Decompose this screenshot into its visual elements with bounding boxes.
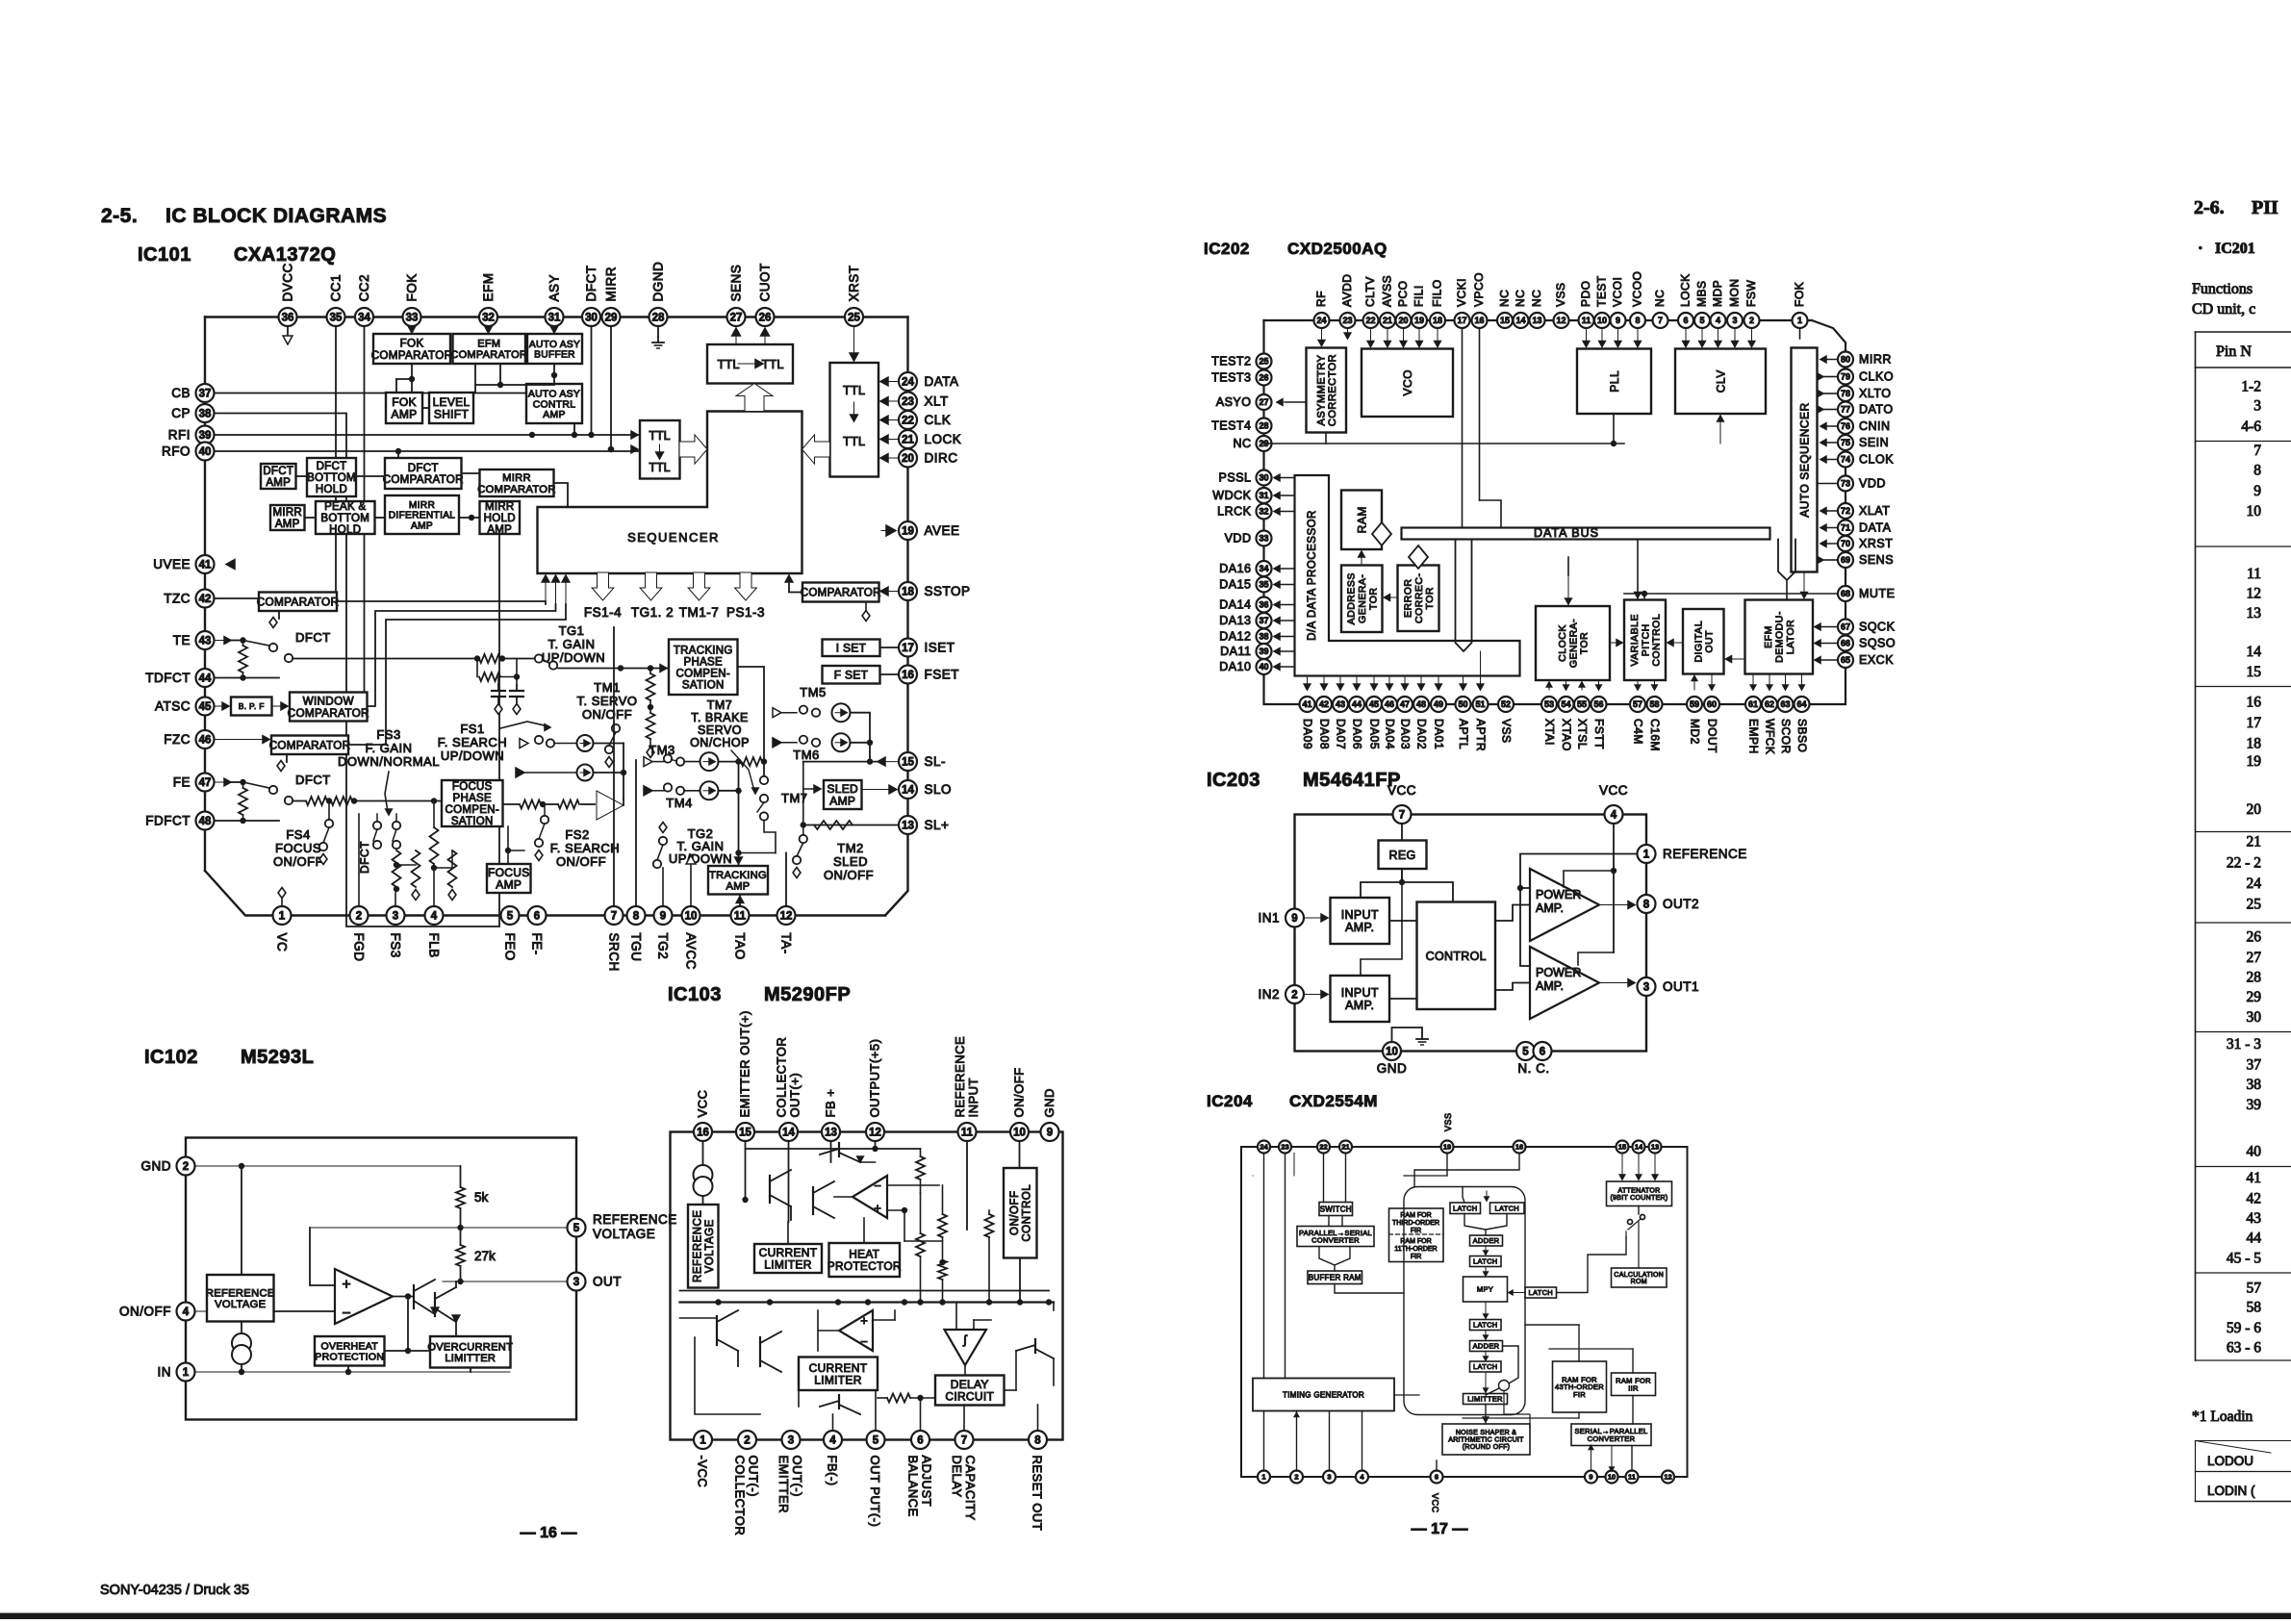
pin 48 <box>196 812 215 830</box>
wire reference voltage down <box>241 1166 242 1275</box>
svg-text:GENERA-: GENERA- <box>1567 619 1579 668</box>
svg-text:44: 44 <box>1352 699 1362 709</box>
block FOK COMPARATOR <box>373 334 450 364</box>
wire TE line to TG1 <box>293 658 477 660</box>
pin 5 <box>1694 313 1710 328</box>
svg-text:CLK: CLK <box>925 413 952 427</box>
svg-text:12: 12 <box>2247 586 2262 602</box>
pin 59 <box>1687 697 1702 712</box>
block F SET <box>823 666 880 684</box>
svg-text:DIFERENTIAL: DIFERENTIAL <box>389 511 456 521</box>
wire pin4 vcc down <box>1613 824 1615 952</box>
wire TM7 pointer <box>731 750 754 791</box>
table loading small <box>2196 1440 2291 1442</box>
svg-text:38: 38 <box>2247 1077 2262 1093</box>
wire TAO pin11 to tracking amp <box>739 895 741 906</box>
block MIRR HOLD AMP <box>480 501 521 534</box>
wire MUTE rail <box>1624 593 1838 595</box>
svg-text:65: 65 <box>1841 655 1850 665</box>
pin 24 <box>1258 1141 1270 1154</box>
svg-text:TTL: TTL <box>843 383 865 397</box>
wire asymmetry corrector stub <box>1321 328 1323 346</box>
svg-text:LATCH: LATCH <box>1473 1257 1498 1266</box>
svg-text:FB +: FB + <box>824 1089 838 1118</box>
svg-text:LATCH: LATCH <box>1494 1204 1519 1212</box>
pin 38 <box>1257 629 1272 645</box>
wire opamp upper feed <box>834 1196 853 1198</box>
block SLED AMP <box>824 780 862 809</box>
pin 23 <box>1279 1141 1291 1154</box>
wire IC101 right frame <box>885 317 908 916</box>
svg-text:2: 2 <box>744 1435 750 1447</box>
svg-text:14: 14 <box>1515 316 1525 325</box>
wire TZC pin42 to comparator <box>215 597 260 599</box>
block TTL down-converter small <box>640 420 680 479</box>
svg-text:TTL: TTL <box>717 357 739 371</box>
svg-text:LRCK: LRCK <box>1217 505 1252 519</box>
svg-text:VSS: VSS <box>1443 1112 1453 1131</box>
svg-text:T. GAIN: T. GAIN <box>547 637 595 651</box>
svg-text:22 - 2: 22 - 2 <box>2227 855 2261 872</box>
svg-text:44: 44 <box>2247 1230 2262 1246</box>
svg-text:11: 11 <box>2247 566 2261 582</box>
pin 2 <box>177 1157 195 1176</box>
svg-text:CLTV: CLTV <box>1363 276 1377 307</box>
wire overheat to overcurrent <box>385 1350 431 1352</box>
svg-text:VCC: VCC <box>1387 783 1416 798</box>
wire FSET link <box>880 673 900 675</box>
pin 12 <box>1554 313 1569 328</box>
wire SLED AMP out <box>862 789 898 791</box>
svg-text:15: 15 <box>739 1128 751 1139</box>
pin 42 <box>1316 697 1332 712</box>
svg-text:TEST3: TEST3 <box>1211 371 1251 385</box>
wire pitch control top <box>1637 540 1639 598</box>
block MIRR DIFFERENTIAL AMP <box>385 495 459 534</box>
pin 62 <box>1762 697 1777 712</box>
block ADDRESS GENERATOR <box>1341 566 1383 633</box>
svg-text:41: 41 <box>2247 1170 2262 1186</box>
block PLL <box>1577 349 1651 415</box>
svg-text:CONTRL: CONTRL <box>533 399 576 410</box>
pin 52 <box>1498 697 1514 712</box>
wire AVEE arrow <box>886 525 896 536</box>
block TRACKING AMP <box>708 866 768 895</box>
svg-text:25: 25 <box>1259 357 1268 367</box>
current source IC102 <box>232 1333 251 1353</box>
svg-text:2-5.: 2-5. <box>101 205 138 227</box>
svg-text:AMP: AMP <box>392 408 418 421</box>
wire MPY to latch E <box>1485 1302 1487 1318</box>
svg-text:AVSS: AVSS <box>1381 275 1394 307</box>
wire ON/OFF control down <box>1019 1258 1021 1303</box>
pin 65 <box>1838 652 1853 668</box>
svg-text:AMP.: AMP. <box>1345 921 1374 934</box>
svg-text:6: 6 <box>1435 1473 1438 1482</box>
svg-text:60: 60 <box>1707 699 1717 709</box>
block SEQUENCER <box>538 412 802 574</box>
pin 34 <box>355 308 373 326</box>
svg-text:SONY-04235 / Druck 35: SONY-04235 / Druck 35 <box>100 1583 249 1598</box>
svg-text:IC203: IC203 <box>1207 770 1260 791</box>
wire limitter down <box>1485 1405 1487 1425</box>
svg-text:SWITCH: SWITCH <box>1320 1205 1352 1213</box>
svg-text:COMPARATOR: COMPARATOR <box>269 739 351 751</box>
wire IN bus <box>195 1371 511 1373</box>
svg-text:NOISE SHAPER &: NOISE SHAPER & <box>1456 1430 1516 1436</box>
svg-text:9: 9 <box>1047 1128 1053 1139</box>
svg-text:14: 14 <box>902 785 914 797</box>
svg-text:TGU: TGU <box>629 933 644 962</box>
svg-text:VPCO: VPCO <box>1472 272 1486 307</box>
pin 35 <box>327 308 345 326</box>
svg-text:54: 54 <box>1561 699 1570 709</box>
svg-text:VSS: VSS <box>1554 282 1567 307</box>
svg-text:17: 17 <box>2247 715 2262 731</box>
pin 2 <box>1286 985 1304 1003</box>
svg-text:M5290FP: M5290FP <box>764 984 851 1005</box>
svg-text:DFCT: DFCT <box>358 841 371 874</box>
svg-text:LATCH: LATCH <box>1473 1362 1498 1371</box>
pin 7 <box>955 1431 974 1449</box>
svg-text:DA13: DA13 <box>1219 614 1251 627</box>
svg-text:LODIN (: LODIN ( <box>2207 1484 2255 1498</box>
svg-text:20: 20 <box>902 453 914 465</box>
svg-text:TIMING GENERATOR: TIMING GENERATOR <box>1283 1390 1364 1399</box>
svg-text:ADDER: ADDER <box>1473 1342 1500 1351</box>
block EFM DEMODULATOR <box>1745 600 1814 674</box>
svg-text:POWER: POWER <box>1536 966 1581 979</box>
svg-text:EMITTER OUT(+): EMITTER OUT(+) <box>738 1010 752 1117</box>
pin 21 <box>1380 313 1395 328</box>
svg-text:21: 21 <box>902 435 914 446</box>
pin 33 <box>403 308 421 326</box>
block SERIAL-PARALLEL CONVERTER <box>1571 1424 1651 1446</box>
svg-text:WDCK: WDCK <box>1212 489 1251 502</box>
svg-text:DA06: DA06 <box>1351 719 1364 749</box>
pin 6 <box>911 1431 929 1449</box>
svg-text:27: 27 <box>730 313 743 324</box>
svg-text:ON/OFF: ON/OFF <box>556 854 606 869</box>
wire resistor col2 IC103 <box>942 1185 944 1214</box>
svg-text:PROTECTOR: PROTECTOR <box>827 1259 902 1273</box>
ground DGND pin 28 <box>657 326 659 337</box>
wire FE line resistors <box>293 800 306 802</box>
wire OUT line <box>443 1281 568 1282</box>
svg-text:27k: 27k <box>474 1249 496 1263</box>
wire clock gen to pitch link <box>1610 642 1622 644</box>
wire IC202 top-right corner <box>1812 320 1846 350</box>
pin 1 <box>694 1431 712 1449</box>
pin 14 <box>1633 1141 1645 1154</box>
wire FOK AMP level shift link <box>422 407 429 409</box>
pin 37 <box>1257 613 1272 628</box>
pin 13 <box>899 816 917 834</box>
svg-text:DA08: DA08 <box>1318 719 1332 749</box>
pin 8 <box>1029 1431 1047 1449</box>
svg-text:18: 18 <box>2247 735 2262 751</box>
svg-text:HOLD: HOLD <box>329 524 361 536</box>
wire REG stub <box>1401 824 1403 841</box>
wire VCKI long vertical <box>1462 328 1464 528</box>
svg-text:DIGITAL: DIGITAL <box>1693 621 1704 663</box>
svg-text:14: 14 <box>782 1128 795 1139</box>
svg-text:6: 6 <box>1540 1047 1545 1058</box>
wire TTL right box out arrow <box>802 435 830 464</box>
pin 24 <box>899 372 917 391</box>
svg-text:24: 24 <box>902 377 914 389</box>
svg-text:16: 16 <box>697 1128 709 1139</box>
pin 10 <box>682 906 700 925</box>
wire IN1 arrow <box>1304 917 1328 919</box>
svg-text:VOLTAGE: VOLTAGE <box>704 1219 716 1273</box>
wire PLL stubs <box>1586 328 1588 347</box>
svg-text:37: 37 <box>1259 616 1268 625</box>
block WINDOW COMPARATOR <box>290 693 368 722</box>
svg-text:47: 47 <box>199 777 212 789</box>
svg-text:RAM: RAM <box>1355 506 1368 533</box>
pin 6 <box>1534 1042 1552 1060</box>
svg-text:MUTE: MUTE <box>1859 587 1895 600</box>
svg-text:TM1-7: TM1-7 <box>679 605 720 620</box>
wire reg rail <box>1361 882 1453 902</box>
svg-text:40: 40 <box>2247 1143 2262 1159</box>
wire opamp out <box>393 1296 414 1298</box>
svg-text:10: 10 <box>1608 1473 1616 1482</box>
pin 20 <box>1396 313 1412 328</box>
svg-text:EMITTER: EMITTER <box>776 1456 791 1514</box>
wire IC202 top bus <box>1264 319 1813 321</box>
svg-text:DFCT: DFCT <box>263 466 293 477</box>
svg-text:26: 26 <box>1259 373 1268 383</box>
op-amp lower IC103 <box>839 1310 873 1351</box>
pin 30 <box>582 308 600 326</box>
svg-text:13: 13 <box>825 1128 837 1139</box>
pin 25 <box>845 308 863 326</box>
svg-text:TG1. 2: TG1. 2 <box>631 605 674 620</box>
svg-text:ON/OFF: ON/OFF <box>824 868 874 882</box>
svg-text:PDO: PDO <box>1579 280 1592 307</box>
block HEAT PROTECTOR <box>829 1243 901 1277</box>
switch TM7 <box>760 776 768 784</box>
svg-text:DFCT: DFCT <box>408 463 439 474</box>
svg-text:57: 57 <box>1633 699 1642 709</box>
svg-text:DA02: DA02 <box>1415 719 1429 749</box>
svg-text:SERVO: SERVO <box>698 723 742 737</box>
svg-text:D/A DATA PROCESSOR: D/A DATA PROCESSOR <box>1307 510 1318 641</box>
wire FS1 row1 <box>520 739 528 749</box>
svg-text:59: 59 <box>1690 699 1699 709</box>
wire comparator FZC diamond <box>286 754 288 762</box>
wire delay capacity pin7 up <box>963 1406 965 1432</box>
svg-text:AUTO SEQUENCER: AUTO SEQUENCER <box>1797 402 1811 517</box>
wire clock gen arrow from bus <box>1567 575 1569 604</box>
pin 28 <box>1257 419 1272 434</box>
svg-text:75: 75 <box>1841 438 1850 447</box>
wire delay to transistor <box>1005 1389 1017 1391</box>
svg-text:COMPEN-: COMPEN- <box>676 668 730 679</box>
svg-text:16: 16 <box>2247 695 2262 711</box>
wire TG1 resistor network <box>474 655 480 661</box>
svg-text:XLTO: XLTO <box>1859 387 1892 400</box>
pin 11 <box>1579 313 1594 328</box>
svg-text:Functions: Functions <box>2192 281 2253 297</box>
pin 16 <box>1514 1141 1526 1154</box>
svg-text:11: 11 <box>1628 1473 1636 1482</box>
pin 66 <box>1838 636 1853 651</box>
block FOK AMP <box>386 393 422 423</box>
svg-text:UP/DOWN: UP/DOWN <box>441 749 504 763</box>
wire FGD pin2 vertical <box>358 814 360 906</box>
svg-text:SHIFT: SHIFT <box>434 408 470 421</box>
svg-text:35: 35 <box>1259 580 1268 590</box>
svg-text:FOK: FOK <box>400 338 424 350</box>
wire error corrector to address generator <box>1385 596 1398 598</box>
block CONTROL <box>1417 902 1496 1010</box>
svg-text:LATCH: LATCH <box>1528 1288 1553 1297</box>
svg-text:DATA BUS: DATA BUS <box>1534 526 1599 540</box>
svg-text:TM5: TM5 <box>800 685 827 699</box>
switch FS3 pair <box>373 822 381 829</box>
svg-text:VCC: VCC <box>1431 1493 1440 1513</box>
wire DFCT chain <box>296 475 308 477</box>
svg-text:FS3: FS3 <box>389 933 403 958</box>
pin 7 <box>605 906 624 925</box>
svg-text:3: 3 <box>1643 982 1649 994</box>
pin 69 <box>1838 552 1853 568</box>
svg-text:+: + <box>860 1313 868 1328</box>
pin 70 <box>1838 536 1853 551</box>
pin 78 <box>1838 386 1853 401</box>
block ERROR CORRECTOR <box>1398 566 1439 632</box>
svg-text:CP: CP <box>171 406 191 420</box>
svg-text:TM3: TM3 <box>649 743 675 757</box>
svg-text:VCKI: VCKI <box>1455 278 1468 307</box>
svg-text:DA04: DA04 <box>1384 719 1397 749</box>
wire reference net <box>1520 854 1637 889</box>
svg-text:10: 10 <box>2247 503 2262 520</box>
svg-text:SEIN: SEIN <box>1859 436 1889 449</box>
wire PA2 out <box>1599 982 1635 984</box>
pin 47 <box>196 774 215 792</box>
wire VC pin1 diamond <box>281 899 283 906</box>
block REFERENCE VOLTAGE <box>207 1275 274 1322</box>
wire REG to rail <box>1401 869 1403 882</box>
svg-text:13: 13 <box>1651 1143 1659 1152</box>
block FOCUS PHASE COMPENSATION <box>442 780 503 826</box>
opamp focus <box>597 791 624 820</box>
svg-text:TM2: TM2 <box>837 841 864 855</box>
wire window comp out <box>368 604 556 706</box>
svg-text:33: 33 <box>406 313 419 324</box>
wire converter to buffer ram brace <box>1319 1247 1335 1272</box>
svg-text:OUT1: OUT1 <box>1663 979 1699 994</box>
svg-text:FILO: FILO <box>1431 279 1444 307</box>
wire FS3 arrow <box>385 772 389 812</box>
svg-text:DA14: DA14 <box>1219 598 1251 612</box>
svg-text:DFCT: DFCT <box>584 266 598 302</box>
svg-text:61: 61 <box>1748 699 1758 709</box>
pin 11 <box>731 906 750 925</box>
svg-text:DFCT: DFCT <box>317 461 347 472</box>
pin 5 <box>568 1219 586 1237</box>
svg-text:74: 74 <box>1841 455 1850 465</box>
svg-text:1: 1 <box>1797 316 1802 325</box>
svg-text:28: 28 <box>1259 421 1268 431</box>
svg-text:(ROUND OFF): (ROUND OFF) <box>1463 1444 1511 1451</box>
svg-text:N. C.: N. C. <box>1517 1061 1549 1076</box>
pin 9 <box>1041 1123 1059 1141</box>
pin 44 <box>1349 697 1364 712</box>
pin 9 <box>1585 1471 1597 1484</box>
svg-text:2-6.: 2-6. <box>2194 197 2225 218</box>
svg-text:F. SEARCH: F. SEARCH <box>550 841 620 855</box>
svg-text:— 17 —: — 17 — <box>1412 1521 1468 1537</box>
svg-text:REFERENCE: REFERENCE <box>593 1212 677 1227</box>
svg-text:COLLECTOR: COLLECTOR <box>733 1456 748 1536</box>
switch TM2 <box>800 835 807 843</box>
svg-text:DA15: DA15 <box>1219 578 1251 592</box>
wire sequencer arrow up to TTL-TTL <box>736 384 773 412</box>
block COMPARATOR TZC <box>259 593 337 612</box>
pin 80 <box>1838 352 1853 368</box>
wire Q2 collector to OUT <box>455 1281 457 1287</box>
svg-text:FE: FE <box>173 775 191 790</box>
svg-text:RFO: RFO <box>162 444 191 459</box>
pin 36 <box>1257 597 1272 613</box>
svg-text:44: 44 <box>199 673 212 685</box>
pin 19 <box>1441 1141 1454 1154</box>
pin 18 <box>899 582 917 600</box>
svg-text:XRST: XRST <box>847 265 861 301</box>
resistor 27k <box>456 1245 465 1266</box>
pin 45 <box>196 698 215 716</box>
svg-text:T. BRAKE: T. BRAKE <box>691 711 749 724</box>
power amp 2 triangle <box>1530 947 1599 1019</box>
pin 3 <box>1323 1471 1336 1484</box>
svg-text:M54641FP: M54641FP <box>1303 770 1401 791</box>
svg-text:36: 36 <box>1259 600 1268 610</box>
svg-text:REFERENCE: REFERENCE <box>1663 847 1747 861</box>
switch FS4 <box>325 820 333 827</box>
svg-text:BALANCE: BALANCE <box>906 1456 921 1517</box>
svg-text:LIMITER: LIMITER <box>814 1373 861 1386</box>
svg-text:AMP: AMP <box>725 881 750 893</box>
wire timing generator pins <box>1263 1411 1265 1472</box>
svg-text:M5293L: M5293L <box>241 1047 314 1068</box>
svg-text:TM6: TM6 <box>793 748 820 762</box>
wire OUT PUT pin5 up <box>875 1390 877 1431</box>
svg-text:VCOO: VCOO <box>1631 271 1644 307</box>
pin 24 <box>1314 313 1330 328</box>
wire IC202 bottom bus <box>1299 703 1810 705</box>
svg-text:XTAI: XTAI <box>1543 719 1557 746</box>
svg-text:F SET: F SET <box>834 669 869 682</box>
pin 2 <box>738 1431 756 1449</box>
svg-text:18: 18 <box>1433 316 1442 325</box>
svg-text:36: 36 <box>282 313 294 324</box>
pin 6 <box>528 906 547 925</box>
svg-text:11: 11 <box>734 911 747 923</box>
svg-text:REFERENCE: REFERENCE <box>206 1287 275 1299</box>
svg-text:SL-: SL- <box>925 754 947 769</box>
resistor horizontal IC103 <box>887 1394 910 1403</box>
svg-text:43: 43 <box>199 636 212 647</box>
svg-text:45: 45 <box>1369 699 1379 709</box>
svg-text:DIRC: DIRC <box>925 451 958 466</box>
svg-text:GND: GND <box>1042 1088 1056 1117</box>
svg-text:APTR: APTR <box>1474 719 1488 751</box>
